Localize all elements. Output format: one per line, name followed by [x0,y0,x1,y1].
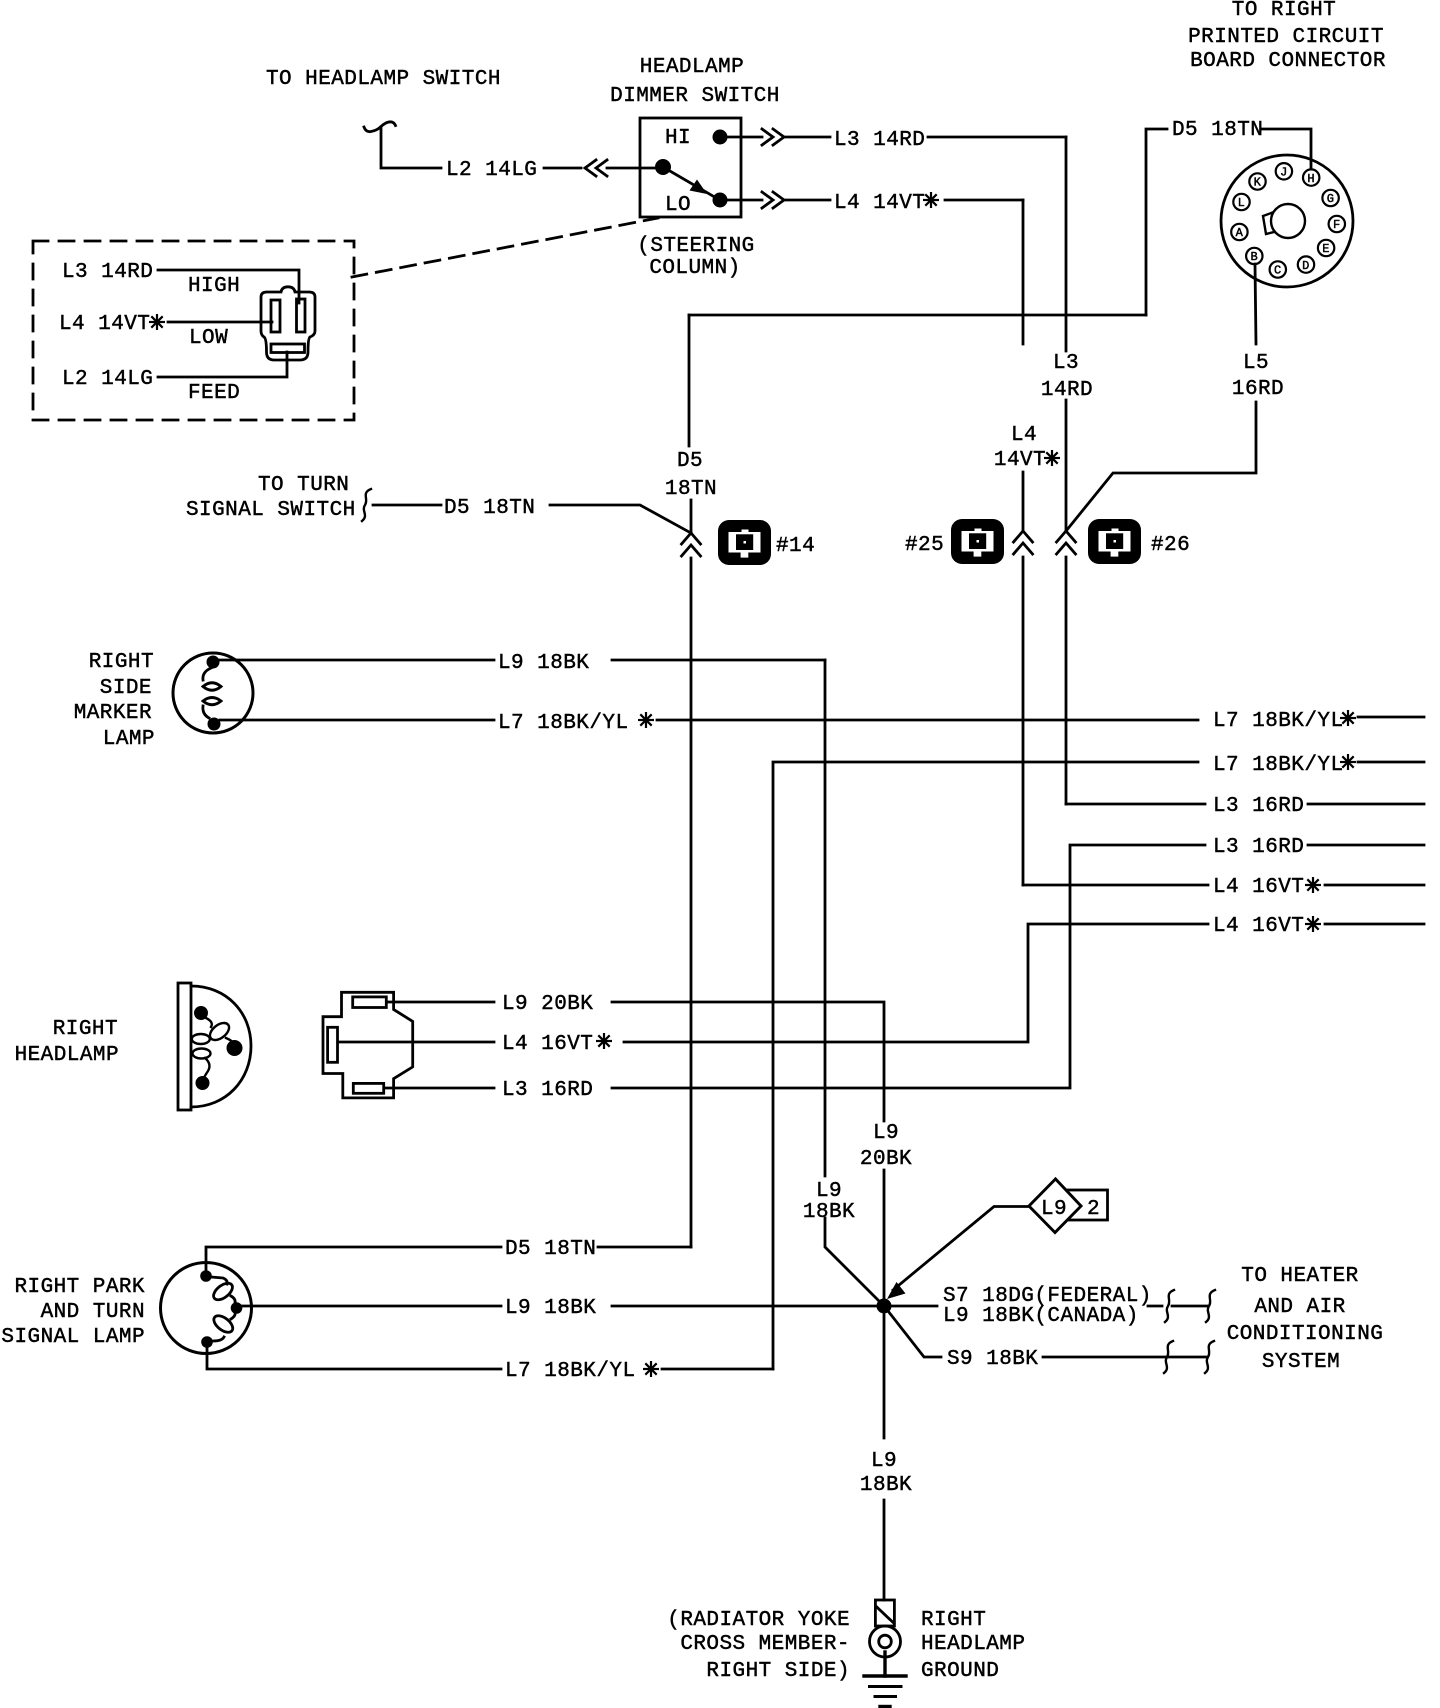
wire feed pin [158,352,287,377]
connector C1 circular PCB connector [1221,155,1353,287]
wire D5 18TN from park lamp [206,1247,501,1271]
svg-text:L5: L5 [1243,352,1269,375]
svg-text:L9: L9 [816,1180,842,1203]
wire L4 vertical (dimmer LO to L4 16VT row) [1022,200,1025,885]
svg-text:20BK: 20BK [860,1148,912,1171]
svg-text:HI: HI [665,127,691,150]
svg-text:L3 14RD: L3 14RD [834,129,925,152]
wire D5 row to vertical [598,1246,691,1249]
svg-text:L7 18BK/YL: L7 18BK/YL [505,1360,636,1383]
wire L7 18BK/YL row2 [773,762,1198,1369]
svg-text:L4 14VT: L4 14VT [59,313,150,336]
wire L9 row to junction [612,1305,877,1308]
wire LO out with chevrons [727,192,830,208]
svg-text:14VT: 14VT [994,449,1046,472]
svg-text:B: B [1250,250,1258,264]
svg-text:CONDITIONING: CONDITIONING [1227,1323,1384,1346]
wire L4 16VT row1 [1023,884,1208,887]
svg-text:A: A [1236,226,1244,240]
svg-text:L3 14RD: L3 14RD [62,261,153,284]
dashed leader line to dimmer switch [352,218,658,277]
wire HI out with chevrons [727,129,830,145]
svg-text:MARKER: MARKER [74,702,152,725]
svg-text:SYSTEM: SYSTEM [1262,1351,1340,1374]
svg-text:RIGHT PARK: RIGHT PARK [14,1276,145,1299]
wire L3 16RD row2 (to headlamp) [612,845,1205,1088]
wire L3 14RD to vertical [928,136,1066,139]
wire L7 row1 stub [1358,716,1424,719]
svg-text:#25: #25 [905,534,944,557]
svg-text:L9: L9 [873,1122,899,1145]
svg-text:H: H [1307,172,1315,186]
svg-text:L4 16VT: L4 16VT [1213,915,1304,938]
dashed box [33,241,354,420]
wire L9 20BK from headlamp [387,1001,494,1004]
connector #14 icon [718,520,771,565]
wire L7 18BK/YL row1 [220,719,494,722]
svg-text:RIGHT: RIGHT [921,1609,986,1632]
dimmer switch arm with arrowhead [663,167,718,199]
svg-text:L9: L9 [1041,1198,1067,1221]
svg-text:TO HEATER: TO HEATER [1241,1265,1358,1288]
wire L4 16VT row2 (to headlamp) [624,924,1208,1042]
svg-text:HEADLAMP: HEADLAMP [15,1044,119,1067]
wire L3 16RD row1 [1066,803,1205,806]
connector #25 chevrons [1014,531,1033,554]
svg-text:HIGH: HIGH [188,275,240,298]
svg-text:18BK: 18BK [860,1474,912,1497]
wire L4 14VT to vertical [945,199,1023,202]
svg-text:L9 20BK: L9 20BK [502,993,593,1016]
wire L2 14LG to dimmer [544,167,664,170]
wire low pin [168,321,272,324]
wire D5 18TN from pin H [1146,129,1311,315]
svg-text:L4: L4 [1011,424,1037,447]
wire D5 horizontal run [689,314,1146,317]
dimmer HI contact dot [713,130,728,145]
wire L3 vertical (dimmer HI to L3 16RD row) [1065,137,1068,804]
wire L5 16RD from pin B down to #26 [1066,264,1256,531]
svg-text:HEADLAMP: HEADLAMP [921,1633,1025,1656]
svg-text:AND TURN: AND TURN [41,1301,145,1324]
svg-text:TO RIGHT: TO RIGHT [1232,0,1336,22]
wire L9 18BK from park lamp [242,1305,501,1308]
wire L9 20BK to vertical [612,1002,884,1306]
svg-text:L3: L3 [1053,352,1079,375]
dimmer switch box [640,118,741,217]
wire L9 18BK from marker lamp [219,659,494,662]
svg-text:BOARD CONNECTOR: BOARD CONNECTOR [1190,50,1386,73]
svg-text:L9 18BK(CANADA): L9 18BK(CANADA) [943,1305,1139,1328]
svg-text:L7 18BK/YL: L7 18BK/YL [1213,754,1344,777]
svg-text:TO TURN: TO TURN [258,474,349,497]
svg-text:L2 14LG: L2 14LG [62,368,153,391]
svg-text:HEADLAMP: HEADLAMP [640,56,744,79]
connector #26 icon [1088,519,1141,564]
svg-text:DIMMER SWITCH: DIMMER SWITCH [610,85,780,108]
splice junction dot [877,1299,892,1314]
svg-text:K: K [1254,176,1262,190]
lamp right headlamp (sealed beam) [178,983,251,1110]
wire L4 row1 stub [1325,884,1424,887]
splice diamond L9 2 [1029,1179,1108,1233]
wire high pin [158,270,299,303]
svg-text:L9 18BK: L9 18BK [505,1297,596,1320]
wire L3 row1 stub [1308,803,1424,806]
connector right headlamp [323,992,413,1098]
svg-text:RIGHT SIDE): RIGHT SIDE) [706,1660,850,1683]
ground symbol [864,1676,906,1707]
svg-text:16RD: 16RD [1232,378,1284,401]
wire L3 16RD from headlamp [384,1087,494,1090]
headlamp connector face (3 slots) [261,287,315,360]
svg-text:AND AIR: AND AIR [1254,1296,1345,1319]
svg-text:L3 16RD: L3 16RD [1213,795,1304,818]
svg-text:F: F [1333,218,1341,232]
svg-text:L4 14VT: L4 14VT [834,192,925,215]
wire L7 row to vertical [662,1368,773,1371]
svg-text:#26: #26 [1151,534,1190,557]
svg-text:E: E [1322,242,1330,256]
svg-text:L3 16RD: L3 16RD [1213,836,1304,859]
wire L9 18BK to vertical [612,659,825,662]
wire D5 18TN from turn signal switch [373,504,441,507]
svg-text:GROUND: GROUND [921,1660,999,1683]
svg-text:L4 16VT: L4 16VT [502,1033,593,1056]
svg-text:(STEERING: (STEERING [637,235,754,258]
svg-text:2: 2 [1087,1198,1100,1221]
break squiggle [362,489,371,521]
wire S9 to break [1043,1356,1206,1359]
svg-text:S9 18BK: S9 18BK [947,1348,1038,1371]
svg-text:(RADIATOR YOKE: (RADIATOR YOKE [667,1609,850,1632]
svg-text:CROSS MEMBER-: CROSS MEMBER- [680,1633,850,1656]
svg-text:TO HEADLAMP SWITCH: TO HEADLAMP SWITCH [266,68,501,91]
svg-text:D5 18TN: D5 18TN [505,1238,596,1261]
chevron arrows left on L2 wire [585,160,607,176]
svg-text:L7 18BK/YL: L7 18BK/YL [498,712,629,735]
wire S7/L9 to heater [891,1305,937,1308]
svg-text:18BK: 18BK [803,1201,855,1224]
wire S9 18BK [888,1311,941,1357]
center key [1263,204,1305,238]
dimmer LO contact dot [713,193,728,208]
svg-text:C: C [1274,264,1282,278]
svg-text:D5 18TN: D5 18TN [1172,119,1263,142]
svg-text:J: J [1280,166,1288,180]
connector #25 icon [951,519,1004,564]
svg-text:FEED: FEED [188,382,240,405]
wire L4 row2 stub [1325,923,1424,926]
wire L9 18BK vertical [825,660,884,1306]
svg-text:RIGHT: RIGHT [53,1018,118,1041]
svg-text:L: L [1238,196,1246,210]
svg-text:PRINTED CIRCUIT: PRINTED CIRCUIT [1188,26,1384,49]
wire to headlamp switch (hook + drop) [364,122,441,168]
svg-text:COLUMN): COLUMN) [649,257,740,280]
svg-text:D: D [1302,259,1310,273]
wire L9 18BK to ground [883,1306,886,1600]
svg-text:SIGNAL LAMP: SIGNAL LAMP [1,1326,145,1349]
wire L3 row2 stub [1308,844,1424,847]
svg-text:L9 18BK: L9 18BK [498,652,589,675]
wire L7 18BK/YL from park lamp [207,1347,501,1369]
svg-text:G: G [1327,192,1335,206]
lamp park and turn [161,1263,252,1354]
svg-text:L3 16RD: L3 16RD [502,1079,593,1102]
wire S7 break [1148,1305,1207,1308]
svg-text:18TN: 18TN [665,478,717,501]
svg-text:#14: #14 [776,535,815,558]
svg-text:LOW: LOW [189,327,228,350]
pcb pins A-L [1231,163,1345,278]
wire D5 vertical [689,315,691,1247]
svg-text:LAMP: LAMP [103,728,155,751]
lamp right side marker [173,653,253,733]
dimmer common contact dot [655,159,671,175]
wire L3 16RD continues (drawn in row2 path above) [598,1087,620,1089]
splice arrow to junction [887,1207,1029,1300]
svg-text:L4 16VT: L4 16VT [1213,876,1304,899]
ground eyelet terminal [870,1600,901,1676]
svg-text:SIDE: SIDE [100,677,152,700]
svg-text:SIGNAL SWITCH: SIGNAL SWITCH [186,499,356,522]
wire L7 row1 to right [657,719,1198,722]
svg-text:L7 18BK/YL: L7 18BK/YL [1213,710,1344,733]
svg-text:D5 18TN: D5 18TN [444,497,535,520]
svg-text:LO: LO [665,194,691,217]
connector #14 chevrons [682,533,701,556]
wire to chevron [550,505,691,533]
wire L7 row2 stub [1358,761,1424,764]
connector #26 chevrons [1057,531,1076,554]
svg-text:L2 14LG: L2 14LG [446,159,537,182]
svg-text:D5: D5 [677,450,703,473]
wire L4 16VT from headlamp [338,1041,494,1044]
svg-text:L9: L9 [871,1450,897,1473]
svg-text:14RD: 14RD [1041,379,1093,402]
svg-text:RIGHT: RIGHT [89,651,154,674]
